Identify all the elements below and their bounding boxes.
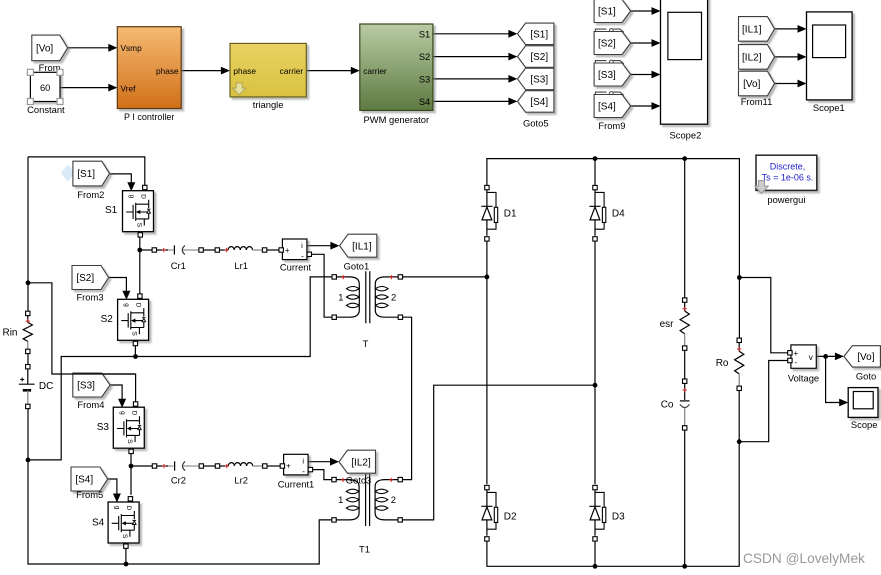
svg-text:[S4]: [S4] — [530, 97, 548, 108]
svg-text:Current1: Current1 — [278, 478, 314, 489]
svg-text:S2: S2 — [101, 314, 114, 325]
svg-text:Lr2: Lr2 — [234, 475, 248, 486]
svg-text:[S2]: [S2] — [76, 273, 94, 284]
svg-text:phase: phase — [156, 66, 179, 76]
svg-text:Ts = 1e-06 s.: Ts = 1e-06 s. — [762, 173, 814, 183]
svg-text:From9: From9 — [598, 120, 625, 131]
svg-text:[S2]: [S2] — [530, 52, 548, 63]
svg-text:-: - — [794, 358, 797, 367]
svg-text:Constant: Constant — [27, 104, 65, 115]
svg-text:T1: T1 — [359, 543, 370, 554]
svg-text:D2: D2 — [504, 511, 517, 522]
svg-text:D3: D3 — [612, 511, 625, 522]
svg-text:From11: From11 — [741, 96, 773, 107]
svg-text:[S4]: [S4] — [598, 102, 616, 113]
svg-text:PWM generator: PWM generator — [363, 114, 429, 125]
svg-text:CSDN @LovelyMek: CSDN @LovelyMek — [743, 551, 865, 566]
svg-text:Current: Current — [280, 262, 312, 273]
svg-text:Voltage: Voltage — [788, 373, 819, 384]
svg-text:Scope2: Scope2 — [670, 129, 702, 140]
svg-text:Lr1: Lr1 — [234, 260, 248, 271]
svg-text:[S1]: [S1] — [598, 7, 616, 18]
svg-text:From3: From3 — [76, 292, 103, 303]
svg-text:[S3]: [S3] — [598, 70, 616, 81]
svg-text:DC: DC — [39, 381, 53, 392]
svg-text:2: 2 — [391, 494, 396, 505]
svg-text:From4: From4 — [77, 399, 104, 410]
svg-text:carrier: carrier — [363, 66, 387, 76]
svg-text:Scope: Scope — [851, 419, 878, 430]
svg-text:[S2]: [S2] — [598, 39, 616, 50]
svg-text:S1: S1 — [105, 205, 118, 216]
svg-text:[S4]: [S4] — [75, 475, 93, 486]
svg-text:P I controller: P I controller — [124, 112, 174, 122]
svg-text:-: - — [301, 252, 304, 261]
svg-text:Cr2: Cr2 — [171, 475, 186, 486]
svg-text:Goto5: Goto5 — [523, 118, 549, 129]
svg-text:v: v — [809, 352, 814, 362]
svg-text:S3: S3 — [97, 422, 110, 433]
svg-text:S4: S4 — [419, 97, 430, 107]
svg-text:2: 2 — [391, 291, 396, 302]
svg-text:S4: S4 — [92, 517, 105, 528]
svg-text:[S1]: [S1] — [530, 29, 548, 40]
svg-text:Goto: Goto — [856, 370, 876, 381]
svg-text:[Vo]: [Vo] — [743, 79, 760, 90]
svg-text:+: + — [286, 462, 291, 471]
svg-text:[Vo]: [Vo] — [857, 352, 874, 363]
svg-text:[IL1]: [IL1] — [742, 25, 762, 36]
svg-text:T: T — [363, 338, 369, 349]
svg-text:S3: S3 — [419, 74, 430, 84]
svg-text:Co: Co — [661, 400, 674, 411]
svg-text:D4: D4 — [612, 209, 625, 220]
svg-text:S1: S1 — [419, 29, 430, 39]
svg-text:From5: From5 — [76, 489, 103, 500]
svg-text:Scope1: Scope1 — [813, 102, 845, 113]
svg-text:[Vo]: [Vo] — [36, 44, 53, 55]
svg-text:1: 1 — [338, 291, 343, 302]
svg-text:[IL1]: [IL1] — [352, 241, 372, 252]
svg-text:phase: phase — [233, 66, 256, 76]
svg-text:powergui: powergui — [767, 194, 805, 205]
svg-text:-: - — [302, 467, 305, 476]
svg-text:[S3]: [S3] — [77, 381, 95, 392]
svg-text:esr: esr — [660, 319, 675, 330]
svg-text:D1: D1 — [504, 209, 517, 220]
svg-text:S2: S2 — [419, 52, 430, 62]
svg-text:From2: From2 — [77, 189, 104, 200]
svg-text:[IL2]: [IL2] — [351, 457, 371, 468]
svg-text:Vref: Vref — [121, 83, 137, 93]
svg-text:+: + — [793, 349, 798, 358]
svg-text:Ro: Ro — [716, 358, 729, 369]
svg-text:+: + — [285, 246, 290, 255]
svg-text:[S3]: [S3] — [530, 75, 548, 86]
svg-text:Vsmp: Vsmp — [121, 43, 143, 53]
svg-text:Cr1: Cr1 — [171, 260, 186, 271]
svg-text:Goto1: Goto1 — [344, 260, 370, 271]
svg-text:[S1]: [S1] — [77, 169, 95, 180]
svg-text:carrier: carrier — [280, 66, 304, 76]
svg-text:triangle: triangle — [253, 99, 284, 110]
svg-text:[IL2]: [IL2] — [742, 53, 762, 64]
svg-text:1: 1 — [338, 494, 343, 505]
svg-text:60: 60 — [40, 82, 50, 93]
svg-text:Discrete,: Discrete, — [770, 162, 806, 172]
svg-text:Rin: Rin — [2, 328, 17, 339]
